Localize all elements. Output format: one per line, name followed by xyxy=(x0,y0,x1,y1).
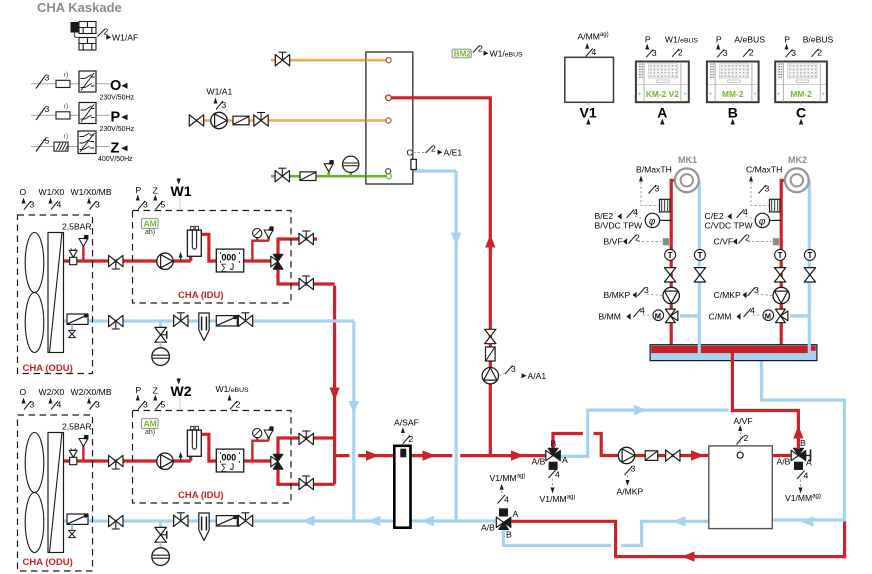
svg-text:B: B xyxy=(800,438,806,448)
label B letter xyxy=(732,102,734,107)
svg-text:CHA (ODU): CHA (ODU) xyxy=(23,557,73,568)
svg-text:3: 3 xyxy=(95,400,100,410)
svg-text:B/MKP: B/MKP xyxy=(604,290,631,300)
svg-text:2: 2 xyxy=(678,48,683,58)
svg-text:3: 3 xyxy=(655,184,660,194)
svg-text:B/VDC TPW: B/VDC TPW xyxy=(595,221,643,231)
svg-text:C/VF: C/VF xyxy=(714,237,734,247)
svg-text:3: 3 xyxy=(222,100,227,110)
svg-text:∑ J: ∑ J xyxy=(221,262,235,272)
MK1 circuit pump B/MKP xyxy=(663,287,679,303)
svg-text:3: 3 xyxy=(511,364,516,374)
MK2 mixer motor M xyxy=(763,310,774,321)
W1 ODU return check valve xyxy=(67,314,88,325)
svg-text:A: A xyxy=(513,509,519,519)
W1 ODU dashed box xyxy=(18,215,93,374)
MK2 flow sensor C/VF xyxy=(773,238,779,245)
tank port DHW outlet (red) xyxy=(386,95,392,101)
module A box xyxy=(636,62,689,103)
svg-text:Z: Z xyxy=(111,141,120,157)
MK1 contact thermostat TW xyxy=(660,199,670,212)
svg-text:MK1: MK1 xyxy=(678,155,697,165)
svg-text:2: 2 xyxy=(236,400,241,410)
wire W1 diverter A-branch red xyxy=(278,269,335,284)
MK2 circulation symbol xyxy=(785,168,809,192)
DHW riser shut-off valve xyxy=(485,329,496,343)
arrow supply right 2 xyxy=(423,450,436,460)
svg-text:4: 4 xyxy=(555,470,560,480)
svg-text:V1: V1 xyxy=(580,105,597,121)
svg-text:A/E1: A/E1 xyxy=(444,148,463,158)
W1 return shut-off valve outer xyxy=(238,313,252,327)
wire DHW circulation orange pipe xyxy=(189,119,386,122)
MK1 supply valve xyxy=(664,268,675,282)
cold water safety valve xyxy=(324,160,334,172)
wire tank stub red outlet xyxy=(391,96,414,99)
svg-text:400V/50Hz: 400V/50Hz xyxy=(98,156,133,163)
label W1 big xyxy=(177,179,181,185)
wire W1 supply red pipe (ODU to IDU) xyxy=(64,234,272,261)
W2 return shut-off valve inner xyxy=(174,513,188,527)
MK1 thermometer supply xyxy=(665,249,676,260)
MK1 circulation symbol xyxy=(675,168,699,192)
svg-text:MM-2: MM-2 xyxy=(722,89,744,99)
manifold red feed riser slot xyxy=(731,352,734,411)
wire DHW tank return blue riser xyxy=(413,171,456,521)
svg-text:5: 5 xyxy=(161,400,166,410)
arrow riser down red xyxy=(329,388,339,401)
svg-text:230V/50Hz: 230V/50Hz xyxy=(100,126,135,133)
svg-text:+: + xyxy=(821,91,825,98)
circulation valve 1 xyxy=(189,115,203,126)
MK1 mixer motor M xyxy=(653,310,664,321)
W1 ODU fan xyxy=(25,233,44,353)
MK1 flow sensor B/VF xyxy=(663,238,669,245)
module B box xyxy=(707,62,759,103)
svg-text:φ: φ xyxy=(759,216,766,227)
label V1/MM callout v1 xyxy=(549,470,557,479)
svg-text:A: A xyxy=(562,455,568,465)
svg-text:2: 2 xyxy=(749,48,754,58)
svg-text:C/MM: C/MM xyxy=(709,312,732,322)
wire tank stub orange circulation xyxy=(366,119,386,122)
W1 B-branch shut-off valve xyxy=(299,231,313,245)
svg-text:4: 4 xyxy=(640,306,645,316)
svg-text:4: 4 xyxy=(804,471,809,481)
diverting valve supply/buffer xyxy=(546,448,561,470)
wire MK1 return slot through supply bar xyxy=(698,344,701,354)
W2 supply shut-off valve xyxy=(109,455,123,469)
wire main return blue pipe xyxy=(64,521,496,528)
wire W1 gauge/SV branch red xyxy=(252,237,268,262)
wire W1 return riser blue xyxy=(352,321,355,521)
svg-text:3: 3 xyxy=(45,104,50,114)
svg-text:O: O xyxy=(20,187,27,197)
diverting valve buffer outlet xyxy=(791,448,810,470)
module A terminal strip xyxy=(639,64,643,78)
manifold supply bar red xyxy=(651,346,810,353)
W1 3-way diverting valve xyxy=(271,254,283,269)
svg-text:2: 2 xyxy=(817,48,822,58)
MK1 thermometer return xyxy=(694,249,705,260)
svg-text:4: 4 xyxy=(57,200,62,210)
wire buffer B-port to manifold red xyxy=(731,411,799,450)
W2 return strainer xyxy=(199,513,209,541)
wire W2 diverter A-branch red xyxy=(278,469,335,485)
svg-text:C: C xyxy=(407,148,413,158)
svg-text:A: A xyxy=(657,105,667,121)
W1 pressure gauge xyxy=(253,229,262,238)
power O row xyxy=(31,71,135,102)
svg-text:AM: AM xyxy=(144,419,157,429)
svg-text:3: 3 xyxy=(143,200,148,210)
wire W2 ODU safety valve stub xyxy=(82,447,84,462)
label BM2 callout xyxy=(452,49,471,58)
buffer loading pump A/MKP xyxy=(618,447,634,463)
svg-text:A/B: A/B xyxy=(481,523,495,533)
wire W2 diverter B-branch red xyxy=(278,438,335,455)
MK2 thermometer return xyxy=(804,249,815,260)
svg-text:3: 3 xyxy=(644,285,649,295)
arrow bottom recirc left red xyxy=(682,551,695,561)
svg-text:3: 3 xyxy=(723,48,728,58)
svg-text:W1/X0/MB: W1/X0/MB xyxy=(71,187,112,197)
cold water filter xyxy=(300,172,316,181)
svg-text:+: + xyxy=(683,91,687,98)
svg-text:A/SAF: A/SAF xyxy=(394,418,419,428)
W2 IDU dashed box xyxy=(133,411,292,504)
label A letter xyxy=(661,102,663,107)
W1 return strainer xyxy=(199,313,209,341)
arrow supply right 1 xyxy=(366,450,379,460)
W1 IDU circulation pump xyxy=(157,253,173,269)
svg-text:W1/AF: W1/AF xyxy=(112,33,138,43)
svg-text:W1/A1: W1/A1 xyxy=(207,87,233,97)
wire MK2 supply red riser xyxy=(781,180,785,346)
arrow into tank right blue xyxy=(801,516,814,526)
W1 drain/fill valve xyxy=(155,327,167,342)
wire W1 return blue pipe xyxy=(64,321,354,328)
svg-text:3: 3 xyxy=(143,400,148,410)
wire MK2 return blue riser xyxy=(808,180,811,353)
wire buffer tank bottom blue xyxy=(504,521,710,545)
module V1 box xyxy=(565,57,614,102)
circulation valve 2 xyxy=(254,113,268,127)
svg-text:P: P xyxy=(136,385,142,395)
svg-text:5: 5 xyxy=(45,136,50,146)
tank port cold water S xyxy=(386,169,391,174)
W1 IDU dashed box xyxy=(133,211,292,304)
MK2 supply valve xyxy=(774,268,785,282)
svg-text:B/E2: B/E2 xyxy=(595,211,614,221)
wire cascade supply riser red xyxy=(335,286,350,485)
svg-text:C/VDC TPW: C/VDC TPW xyxy=(705,221,754,231)
svg-text:P: P xyxy=(645,35,651,45)
arrow MK feed up red xyxy=(793,426,803,439)
svg-text:AM: AM xyxy=(144,219,157,229)
svg-text:Z: Z xyxy=(153,386,158,396)
arrow main return left blue 1 xyxy=(301,516,314,526)
MK2 3-way mixer xyxy=(775,309,788,323)
W1 return shut-off valve inner xyxy=(174,313,188,327)
W1 AM module label xyxy=(142,219,159,229)
mixing valve return xyxy=(496,508,511,529)
manifold body xyxy=(650,345,817,361)
DHW riser filter xyxy=(486,347,496,361)
svg-text:2: 2 xyxy=(478,44,483,54)
W1 ODU safety valve 2,5BAR xyxy=(79,235,89,247)
label W2 big xyxy=(177,379,181,385)
W2 IDU safety valve xyxy=(264,426,274,438)
module C connector grid xyxy=(788,64,817,78)
W2 ODU return check valve xyxy=(67,514,88,525)
arrow W1 return riser down blue xyxy=(349,401,359,414)
svg-text:3: 3 xyxy=(631,464,636,474)
svg-text:BM2: BM2 xyxy=(454,49,471,58)
W2 pressure gauge xyxy=(253,429,262,438)
module B connector grid xyxy=(719,64,748,78)
W1 IDU safety valve xyxy=(264,226,274,238)
MK1 3-way mixer xyxy=(665,309,678,323)
W2 return shut-off valve xyxy=(109,515,123,529)
W1 return shut-off valve xyxy=(109,315,123,329)
svg-text:B: B xyxy=(506,530,512,540)
W2 ODU heat exchanger xyxy=(48,433,64,553)
W2 IDU circulation pump xyxy=(157,453,173,469)
W2 AM module label xyxy=(142,419,159,429)
wire manifold return blue down to tank xyxy=(762,359,845,522)
arrow bypass right blue xyxy=(634,405,647,415)
arrow into buffer red xyxy=(691,450,704,460)
buffer sensor port O xyxy=(737,452,743,458)
arrow main return left blue 2 xyxy=(368,516,381,526)
wire W2 supply red pipe xyxy=(64,434,272,461)
W1 supply shut-off valve xyxy=(109,255,123,269)
svg-text:4: 4 xyxy=(57,400,62,410)
svg-text:A/eBUS: A/eBUS xyxy=(734,35,765,45)
svg-text:4: 4 xyxy=(750,306,755,316)
W1 A-branch shut-off valve xyxy=(299,276,313,290)
svg-text:B: B xyxy=(551,439,557,449)
svg-text:A/VF: A/VF xyxy=(734,416,753,426)
svg-text:B/MaxTH: B/MaxTH xyxy=(636,165,672,175)
svg-text:A/MKP: A/MKP xyxy=(617,487,644,497)
wire buffer tank outlet red xyxy=(772,454,791,457)
svg-text:4: 4 xyxy=(743,207,748,217)
label A/A1 callout xyxy=(499,374,505,376)
MK2 thermometer supply xyxy=(775,249,786,260)
wire MK1 return blue riser xyxy=(698,180,701,353)
svg-text:W2: W2 xyxy=(171,383,192,399)
wire W1 diverter B-branch red xyxy=(278,239,317,255)
svg-text:C: C xyxy=(796,105,806,121)
cold water valve xyxy=(275,168,289,182)
svg-text:O: O xyxy=(20,387,27,397)
svg-text:+: + xyxy=(777,91,781,98)
tank port circulation (orange) xyxy=(386,118,391,123)
label V1/MM callout v2 xyxy=(797,471,805,480)
W2 ODU dashed box xyxy=(18,415,93,571)
svg-text:B/MM: B/MM xyxy=(599,312,621,322)
svg-text:2: 2 xyxy=(745,233,750,243)
circulation pump W1/A1 xyxy=(211,112,227,128)
W1 expansion vessel stub xyxy=(159,342,162,348)
svg-text:M: M xyxy=(765,311,771,320)
W1 heat meter xyxy=(216,249,243,272)
W2 ODU safety valve 2,5BAR xyxy=(79,435,89,447)
svg-text:B: B xyxy=(728,105,738,121)
W2 expansion vessel stub xyxy=(159,542,162,548)
buffer tank body xyxy=(709,446,773,529)
svg-text:KM-2 V2: KM-2 V2 xyxy=(646,89,679,99)
svg-text:3: 3 xyxy=(765,184,770,194)
svg-text:C/MaxTH: C/MaxTH xyxy=(746,165,782,175)
svg-text:r): r) xyxy=(64,104,69,111)
arrow tank return riser down blue xyxy=(451,233,461,246)
MK1 dial thermostat xyxy=(645,213,659,227)
svg-text:C/MKP: C/MKP xyxy=(714,290,741,300)
svg-text:3: 3 xyxy=(95,200,100,210)
svg-text:CHA (ODU): CHA (ODU) xyxy=(23,363,73,374)
svg-text:3: 3 xyxy=(30,200,35,210)
svg-text:CHA Kaskade: CHA Kaskade xyxy=(37,0,122,15)
W2 ODU fan xyxy=(25,433,44,553)
buffer loading filter xyxy=(645,451,658,461)
outdoor sensor wall bricks xyxy=(79,22,96,51)
svg-text:MM-2: MM-2 xyxy=(790,89,812,99)
wire cold water green pipe xyxy=(271,171,386,177)
svg-text:2: 2 xyxy=(744,433,749,443)
MK2 dial thermostat xyxy=(755,213,769,227)
W2 3-way diverting valve xyxy=(271,454,283,469)
MK2 contact thermostat TW xyxy=(770,199,780,212)
module B terminal strip xyxy=(710,64,714,78)
svg-text:A: A xyxy=(806,458,812,468)
W2 air vent xyxy=(69,449,77,465)
W1 ODU drain valve small xyxy=(71,325,73,331)
svg-text:230V/50Hz: 230V/50Hz xyxy=(100,95,135,102)
svg-text:3: 3 xyxy=(791,48,796,58)
tank sensor well xyxy=(411,159,416,169)
arrow main return left blue 3 xyxy=(421,516,434,526)
svg-text:2: 2 xyxy=(104,27,109,37)
label C letter xyxy=(800,102,802,107)
svg-text:3: 3 xyxy=(45,73,50,83)
outdoor sensor wire xyxy=(75,33,80,38)
arrow DHW up red xyxy=(485,235,495,248)
svg-text:B/VF: B/VF xyxy=(604,237,623,247)
wire MK2 return slot through supply bar xyxy=(808,344,811,354)
MK1 return valve xyxy=(694,268,705,282)
wire MK1 supply red riser xyxy=(671,180,675,346)
svg-text:2: 2 xyxy=(409,434,414,444)
arrow tank bottom left blue xyxy=(673,516,686,526)
svg-text:P: P xyxy=(784,35,790,45)
wire bottom-right recirculation red xyxy=(512,521,847,556)
W2 drain/fill valve xyxy=(155,527,167,542)
svg-text:MK2: MK2 xyxy=(788,155,807,165)
svg-text:ah): ah) xyxy=(145,429,155,436)
svg-text:P: P xyxy=(716,35,722,45)
svg-text:P: P xyxy=(136,185,142,195)
svg-text:+: + xyxy=(637,91,641,98)
DHW loading pump A/A1 xyxy=(482,368,498,384)
W2 B-branch shut-off valve xyxy=(299,431,313,445)
W2 ODU drain valve small xyxy=(71,525,73,531)
wire W2 gauge/SV branch red xyxy=(252,437,268,462)
power Z row xyxy=(31,131,133,163)
separator A/SAF body xyxy=(394,446,410,528)
svg-text:Z: Z xyxy=(153,186,158,196)
svg-text:r): r) xyxy=(64,72,69,79)
svg-text:4: 4 xyxy=(504,495,509,505)
wire MK2 mixer blue stub xyxy=(790,314,809,317)
label A/MKP callout xyxy=(625,467,633,476)
svg-text:3: 3 xyxy=(652,48,657,58)
svg-text:2: 2 xyxy=(635,233,640,243)
W2 return check valve xyxy=(216,516,237,527)
svg-text:+: + xyxy=(708,91,712,98)
W2 expansion vessel xyxy=(152,548,170,566)
W2 flow direction mark xyxy=(179,452,183,458)
W2 electric heater vessel xyxy=(187,430,201,456)
svg-text:2: 2 xyxy=(431,144,436,154)
module C box xyxy=(775,62,827,103)
svg-text:O: O xyxy=(110,78,121,94)
svg-text:W2/X0: W2/X0 xyxy=(39,387,65,397)
svg-text:+: + xyxy=(753,91,757,98)
wire DHW top orange pipe xyxy=(271,59,386,62)
W1 electric heater vessel xyxy=(187,230,201,256)
svg-text:CHA (IDU): CHA (IDU) xyxy=(178,290,224,301)
W2 heat meter xyxy=(216,449,243,472)
arrow supply right 3 xyxy=(511,450,524,460)
label W1/AF callout xyxy=(98,30,105,37)
module C terminal strip xyxy=(778,64,782,78)
W1 air vent xyxy=(69,249,77,265)
wire tank stub orange top xyxy=(366,59,386,62)
buffer loading valve xyxy=(666,450,680,461)
W1 ODU heat exchanger xyxy=(48,233,64,353)
svg-text:2,5BAR: 2,5BAR xyxy=(62,222,92,232)
svg-text:P: P xyxy=(111,110,121,126)
cold water expansion vessel xyxy=(343,156,359,172)
wire tank stub green cold water xyxy=(366,175,386,178)
power P row xyxy=(31,103,135,134)
svg-text:A/B: A/B xyxy=(777,457,791,467)
tank port top (orange) xyxy=(386,58,391,63)
circulation filter xyxy=(233,116,249,125)
manifold supply bar right notch xyxy=(810,346,815,351)
svg-text:W2/X0/MB: W2/X0/MB xyxy=(71,387,112,397)
module A connector grid xyxy=(648,64,677,78)
svg-text:3: 3 xyxy=(754,285,759,295)
separator sensor black xyxy=(400,449,406,458)
W1 return check valve xyxy=(216,316,237,327)
wire DHW loading line red xyxy=(391,96,490,455)
W2 A-branch shut-off valve xyxy=(299,476,313,490)
svg-text:φ: φ xyxy=(649,216,656,227)
svg-text:∑ J: ∑ J xyxy=(221,462,235,472)
DHW tank xyxy=(366,52,413,184)
svg-text:B/eBUS: B/eBUS xyxy=(803,35,834,45)
svg-text:A/A1: A/A1 xyxy=(528,371,547,381)
MK2 circuit pump C/MKP xyxy=(773,287,789,303)
svg-text:A/B: A/B xyxy=(532,457,546,467)
wire diverter1 A-port bypass blue xyxy=(561,410,729,456)
svg-text:r): r) xyxy=(64,134,69,141)
wire main supply red to separator xyxy=(358,454,394,457)
